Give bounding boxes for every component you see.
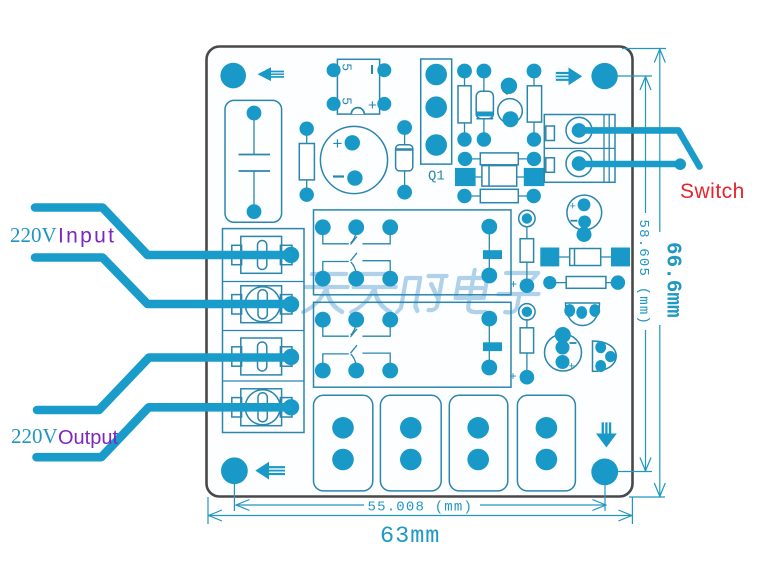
wire switch lower xyxy=(579,161,676,168)
pad D2 top xyxy=(477,64,492,79)
pad C2 positive xyxy=(345,135,360,150)
pad Q1 pin1 xyxy=(425,64,447,86)
K2 silkscreen contacts xyxy=(323,323,390,366)
svg-text:55.008 (mm): 55.008 (mm) xyxy=(368,500,474,516)
pad J2 pin2 xyxy=(572,156,587,171)
dim extension bottom-right edge xyxy=(629,496,665,498)
arrow left (bottom-left) xyxy=(255,462,285,480)
C2 minus mark xyxy=(333,175,344,177)
dim extension bottom-right edge down xyxy=(631,497,633,524)
U1 pin mark | xyxy=(371,65,373,74)
svg-text:5: 5 xyxy=(340,64,355,71)
pad U1 pin4 xyxy=(377,97,391,111)
arrow right (top-right) xyxy=(556,68,582,86)
pad K1 p1 xyxy=(315,219,331,235)
U1 notch xyxy=(351,108,364,115)
capacitor C3 electrolytic xyxy=(567,195,602,230)
resistor R5 horizontal xyxy=(470,189,529,202)
mount pad bottom-right xyxy=(591,459,618,486)
pad C4 negative xyxy=(556,341,570,355)
pad K1 p2 xyxy=(348,219,364,235)
wire switch upper + lever xyxy=(579,130,700,166)
pad U1 pin3 xyxy=(327,97,341,111)
dim line 63mm horizontal xyxy=(208,515,632,517)
resistor R4 horizontal xyxy=(470,153,529,165)
K1 silkscreen contacts xyxy=(323,231,390,274)
pad C1 bottom xyxy=(247,204,262,219)
contact box CB3 xyxy=(449,395,508,491)
pad D3 inner xyxy=(503,111,519,127)
svg-text:58.605 (mm): 58.605 (mm) xyxy=(635,220,651,326)
pad D1 bottom xyxy=(397,185,412,200)
via ring pad 1 xyxy=(519,210,535,226)
pad R3 top xyxy=(527,64,542,79)
pad K2 p4 xyxy=(315,363,331,379)
pad R3 bottom xyxy=(527,132,541,146)
mount pad top-left xyxy=(220,63,246,89)
pad above C4 xyxy=(555,327,571,343)
pad R1 bottom xyxy=(300,188,314,202)
pad K1 p5 xyxy=(348,271,364,287)
svg-text:+: + xyxy=(510,277,517,291)
pad C1 top xyxy=(247,106,262,121)
contact box CB4 xyxy=(517,395,575,491)
resistor R8 vertical xyxy=(520,319,534,374)
relay K1 box xyxy=(314,210,512,295)
pad CB1 a xyxy=(332,417,354,439)
dim line 58.605 vertical xyxy=(645,76,647,213)
svg-text:+: + xyxy=(570,201,576,213)
wire output L (220V output live) xyxy=(37,358,288,411)
pad CB3 b xyxy=(467,449,489,471)
pad J1 pin4 xyxy=(283,399,299,415)
pad D2 bottom xyxy=(477,132,491,146)
svg-text:5: 5 xyxy=(340,98,355,105)
pad K2 p1 xyxy=(315,312,331,328)
pad R6 left xyxy=(543,276,556,289)
pad C4 positive xyxy=(556,355,570,369)
pad R2 bottom xyxy=(457,132,471,146)
pad D1 top xyxy=(397,120,412,135)
svg-text:Input: Input xyxy=(58,225,116,248)
terminal block J2 (switch) xyxy=(544,115,615,183)
pad K2 p2 xyxy=(348,312,364,328)
watermark 天天购电子 (vector strokes) xyxy=(301,270,542,312)
svg-text:+: + xyxy=(510,369,517,383)
LED D3 pad top xyxy=(501,78,517,94)
dim extension bottom-left edge xyxy=(207,497,209,524)
node switch contact dot xyxy=(674,158,686,170)
via ring pad 2 xyxy=(519,304,535,320)
terminal unit 3 xyxy=(232,338,292,375)
pad K2 p6 xyxy=(382,363,398,379)
dim line 66.6 vertical xyxy=(659,49,661,233)
pad C2 negative xyxy=(347,170,362,185)
LED D3 ring xyxy=(498,99,523,124)
pad K1 p6 xyxy=(382,271,398,287)
capacitor C2 electrolytic outline xyxy=(320,126,387,193)
resistor R7 vertical xyxy=(520,226,534,282)
contact box CB1 xyxy=(314,395,373,491)
pad K1 coil A xyxy=(481,219,497,235)
relay K2 box xyxy=(314,302,512,387)
pad CB2 b xyxy=(400,449,422,471)
pad Q1 pin2 xyxy=(425,96,447,118)
svg-text:220V: 220V xyxy=(10,223,57,247)
dim extension from bottom-right pad down xyxy=(604,485,606,511)
svg-text:Output: Output xyxy=(58,427,118,449)
pad CB4 b xyxy=(536,449,558,471)
pad CB2 a xyxy=(400,417,422,439)
wire input L (220V input live) xyxy=(35,208,288,256)
pad R1 top xyxy=(300,122,314,136)
LED D3 tick xyxy=(503,91,508,95)
pad J1 pin2 xyxy=(283,296,299,312)
transistor Q1 box xyxy=(421,59,452,164)
pad R2 top xyxy=(457,64,472,79)
dim extension top edge xyxy=(622,48,666,50)
transistor Q2 TO-92 xyxy=(564,303,600,326)
terminal unit 1 xyxy=(232,236,292,273)
arrow down (bottom-right) xyxy=(596,422,617,447)
arrow left (top-left) xyxy=(258,67,285,81)
svg-text:+: + xyxy=(333,134,343,153)
svg-text:Q1: Q1 xyxy=(428,169,445,185)
pad J1 pin3 xyxy=(283,349,299,365)
pad R4 right xyxy=(527,152,541,166)
dim line 55.008 horizontal xyxy=(236,504,365,506)
dim extension from bottom-left pad xyxy=(233,484,235,511)
board outline xyxy=(207,47,633,497)
diode D6 with square pads xyxy=(540,248,630,267)
pad J2 pin1 xyxy=(572,123,587,138)
pad R5 left xyxy=(457,189,471,203)
pad CB1 b xyxy=(332,449,354,471)
terminal unit 4 xyxy=(232,389,292,426)
diode D1 vertical xyxy=(396,128,413,193)
resistor R6 horizontal xyxy=(552,277,615,289)
pad R8 bottom xyxy=(520,370,535,385)
resistor R3 vertical xyxy=(527,71,541,140)
pad R4 left xyxy=(458,152,472,166)
pad K1 p3 xyxy=(382,219,398,235)
diode D4 horizontal with square pads xyxy=(455,166,544,187)
mount pad top-right xyxy=(591,63,617,89)
contact box CB2 xyxy=(380,395,441,491)
pad K2 p5 xyxy=(348,363,364,379)
pad R5 right xyxy=(527,189,541,203)
pad CB3 a xyxy=(467,417,489,439)
pad U1 pin1 xyxy=(327,63,341,77)
dim extension from bottom-right pad xyxy=(617,471,652,473)
terminal block J1 outline xyxy=(223,229,305,433)
module U1 box xyxy=(337,59,379,114)
mount pad bottom-left xyxy=(221,457,248,484)
pad K2 coil A xyxy=(481,311,497,327)
svg-text:66.6mm: 66.6mm xyxy=(661,242,684,318)
pad C3 positive xyxy=(578,198,591,211)
transistor Q3 TO-92 xyxy=(593,341,617,372)
terminal unit 2 xyxy=(232,286,292,323)
pad CB4 a xyxy=(536,417,558,439)
capacitor C1 plates and leads xyxy=(239,113,271,212)
K2 coil jumper xyxy=(483,319,502,368)
diode D2 vertical xyxy=(476,71,493,140)
pad J1 pin1 xyxy=(283,247,299,263)
pad below C3 xyxy=(577,227,592,242)
capacitor C4 electrolytic xyxy=(545,334,582,373)
svg-text:Switch: Switch xyxy=(680,180,745,203)
svg-text:+: + xyxy=(368,97,377,114)
svg-text:220V: 220V xyxy=(11,424,58,448)
pad C3 negative xyxy=(578,216,591,229)
wire output N (220V output neutral) xyxy=(37,407,289,457)
K1 coil jumper xyxy=(483,227,502,276)
pad R7 bottom xyxy=(520,278,535,293)
pad Q1 pin3 xyxy=(425,134,447,156)
resistor R1 vertical xyxy=(299,129,314,195)
pad R6 right xyxy=(611,275,625,289)
wire input N (220V input neutral) xyxy=(35,258,288,305)
pad K2 coil B xyxy=(481,360,497,376)
pad K2 p3 xyxy=(382,312,398,328)
resistor R2 vertical xyxy=(458,71,471,140)
svg-text:63mm: 63mm xyxy=(380,523,440,550)
capacitor C1 film box xyxy=(225,100,282,222)
pad K1 p4 xyxy=(315,271,331,287)
pad K1 coil B xyxy=(481,268,497,284)
dim extension from top-right pad xyxy=(617,75,652,77)
pad U1 pin2 xyxy=(377,63,391,77)
